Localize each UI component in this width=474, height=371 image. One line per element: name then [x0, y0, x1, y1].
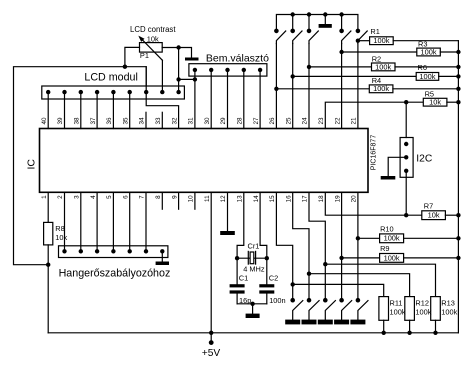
svg-text:21: 21 [351, 117, 358, 125]
svg-text:10: 10 [188, 195, 195, 203]
node pin20/R10 junction [356, 236, 360, 240]
wire IC pin 23 up to R5 row [325, 102, 423, 128]
ground stub on top bus [324, 15, 326, 25]
wire IC pin 3 to volume connector [80, 192, 82, 251]
pin number labels IC bottom row 1..20 [41, 195, 358, 203]
wire I2C bottom pin to R7 row [405, 171, 407, 215]
svg-text:31: 31 [188, 117, 195, 125]
potentiometer P1 body [140, 43, 163, 53]
svg-text:10k: 10k [428, 211, 440, 220]
node crystal left [235, 256, 239, 260]
svg-text:18: 18 [318, 195, 325, 203]
wire P1 junction down to LCD pin 9 [178, 48, 180, 93]
svg-text:R9: R9 [380, 244, 389, 253]
node oscillator ground [250, 302, 254, 306]
node junction wiper-net / pin31 wire [176, 77, 180, 81]
wire row to R12 top [309, 274, 410, 297]
wire P1 right terminal to ground [162, 48, 191, 58]
svg-text:10k: 10k [55, 233, 67, 242]
LCD connector box [42, 86, 185, 99]
svg-text:100k: 100k [373, 36, 389, 45]
resistor R7 [422, 211, 459, 220]
switch S8 (bottom, pin 17 net) [323, 298, 335, 320]
switch S3 (IC pin 24) [307, 29, 319, 44]
LCD connector pin dots [46, 90, 181, 94]
resistor R13 [431, 297, 441, 333]
ground bar on top bus [319, 24, 332, 28]
wire Bem pin2 to IC pin 30 [210, 70, 212, 129]
switch S7 (bottom, pin 16 net) [307, 298, 319, 320]
wire P1 wiper to LCD pin 8 [161, 60, 163, 92]
svg-text:4 MHz: 4 MHz [243, 265, 265, 274]
wire C1 bottom [236, 294, 238, 304]
svg-text:100k: 100k [390, 307, 406, 316]
wire IC pin 12 to ground [227, 192, 229, 231]
wire IC pin 13 to crystal [237, 192, 244, 258]
svg-text:29: 29 [220, 117, 227, 125]
svg-text:9: 9 [171, 195, 178, 199]
node taps on switch columns [274, 50, 344, 91]
Hangerőszabályozóhoz connector box [59, 246, 168, 258]
ground bar pin 12 [220, 231, 235, 235]
svg-text:R11: R11 [390, 298, 403, 307]
svg-text:33: 33 [155, 117, 162, 125]
svg-text:25: 25 [285, 117, 292, 125]
svg-text:100n: 100n [269, 296, 285, 305]
wire LCD pin6 to IC pin 35 [129, 92, 131, 128]
svg-text:35: 35 [122, 117, 129, 125]
potentiometer P1 wiper arrow [138, 36, 162, 61]
svg-text:38: 38 [74, 117, 81, 125]
svg-text:P1: P1 [140, 51, 149, 60]
wire S4 to IC pin 22 [341, 44, 343, 129]
svg-text:1: 1 [41, 195, 48, 199]
node row junction to R11 [291, 282, 295, 286]
ground bar S6 [285, 320, 300, 325]
wire IC pin 17 jog to switch column 3 [309, 192, 325, 300]
svg-text:C2: C2 [269, 273, 278, 282]
svg-text:6: 6 [122, 195, 129, 199]
ground bar I2C [381, 176, 396, 180]
wire IC pin 2 to volume connector [64, 192, 66, 251]
svg-text:LCD modul: LCD modul [84, 71, 137, 83]
node row junction to R13 [323, 262, 327, 266]
wire to oscillator ground bar [252, 304, 254, 314]
svg-text:100k: 100k [420, 47, 436, 56]
stub IC pin 10 [194, 192, 196, 209]
wire LCD pin2 to IC pin 39 [64, 92, 66, 128]
svg-text:Hangerőszabályozóhoz: Hangerőszabályozóhoz [59, 268, 171, 280]
Bem connector pin dots [193, 68, 263, 72]
wire Bem pin4 to IC pin 28 [243, 70, 245, 129]
wire right vertical bus [457, 41, 459, 333]
wire IC pin 20 down to switch [357, 192, 359, 300]
resistor R9 [342, 254, 459, 263]
node bottom bus junctions [209, 331, 438, 335]
svg-text:16: 16 [285, 195, 292, 203]
svg-text:100k: 100k [384, 234, 400, 243]
svg-text:R8: R8 [55, 224, 64, 233]
wire S3 to IC pin 24 [308, 44, 310, 129]
wire Bem pin1 to IC pin 31 [194, 70, 196, 129]
wire IC pin 5 to volume connector [112, 192, 114, 251]
svg-text:36: 36 [106, 117, 113, 125]
wire IC pin 7 to volume connector [145, 192, 147, 251]
svg-text:100k: 100k [375, 62, 391, 71]
svg-text:C1: C1 [239, 274, 248, 283]
svg-text:100k: 100k [419, 72, 435, 81]
svg-text:5: 5 [106, 195, 113, 199]
ground bar volume connector [156, 262, 169, 266]
switch S4 (IC pin 22) [339, 29, 351, 44]
svg-text:PIC16F877: PIC16F877 [371, 135, 378, 171]
capacitor C1 [230, 284, 245, 293]
ground bar S8 [318, 320, 333, 325]
wire LCD pin7 jog to IC pin 32 [146, 67, 178, 129]
wire I2C middle pin to ground [388, 157, 406, 176]
ground bar S10 [350, 320, 365, 325]
svg-text:8: 8 [155, 195, 162, 199]
wire S5 to IC pin 21 [357, 44, 359, 129]
wire IC pin 11 to +5V bus [210, 192, 212, 332]
LCD module outline box [14, 67, 147, 265]
volume connector pin dots [62, 249, 164, 253]
wire IC pin 16 jog to switch column 2 [293, 192, 309, 300]
svg-text:IC: IC [26, 159, 38, 170]
node right bus junctions [456, 50, 460, 260]
node junction on pin 31 column [193, 77, 197, 81]
svg-text:100k: 100k [441, 307, 457, 316]
svg-text:7: 7 [139, 195, 146, 199]
IC U1 PIC16F877 body [40, 129, 369, 193]
switch S1 (IC pin 26) [274, 29, 286, 44]
svg-text:26: 26 [269, 117, 276, 125]
wire IC pin 18 to R7 row [325, 192, 422, 215]
node pin19/R9 junction [339, 256, 343, 260]
wire bus drop S2 [292, 15, 294, 31]
wire S2 to IC pin 25 [292, 44, 294, 129]
switch S2 (IC pin 25) [290, 29, 302, 44]
wire LCD pin3 to IC pin 38 [80, 92, 82, 128]
svg-text:32: 32 [171, 117, 178, 125]
node P1 right junction [176, 45, 180, 49]
stub IC pin 8 [161, 192, 163, 209]
resistor R1 [358, 37, 459, 45]
svg-text:R13: R13 [441, 298, 455, 307]
svg-text:LCD contrast: LCD contrast [130, 25, 176, 34]
resistor R12 [405, 297, 415, 333]
svg-text:R10: R10 [380, 225, 394, 234]
resistor R4 [276, 85, 458, 93]
node R7 row / I2C junction [404, 213, 408, 217]
svg-text:28: 28 [237, 117, 244, 125]
svg-text:R7: R7 [424, 202, 433, 211]
node bus junctions [291, 12, 344, 16]
svg-text:34: 34 [139, 117, 146, 125]
node R8 / left loop junction [46, 263, 50, 267]
wire IC pin 14 to crystal [260, 192, 267, 258]
ground bar near Bem.valaszto [185, 58, 199, 61]
svg-text:10k: 10k [429, 98, 441, 107]
svg-text:17: 17 [302, 195, 309, 203]
switch S9 (bottom, pin 19 net) [339, 298, 351, 320]
svg-text:20: 20 [351, 195, 358, 203]
wire junction to IC pin 31 column [179, 78, 195, 80]
ground bar S9 [334, 320, 349, 325]
wire IC pin 15 jog to switch column 1 [276, 192, 292, 300]
node crystal right [265, 256, 269, 260]
node P1 left junction [123, 65, 127, 69]
svg-text:16p: 16p [239, 296, 251, 305]
node R5 row to I2C drop [404, 100, 408, 104]
wire row to R11 top [293, 284, 384, 296]
node row junction to R12 [307, 272, 311, 276]
wire C2 bottom [266, 294, 268, 304]
svg-text:3: 3 [74, 195, 81, 199]
capacitor C2 [259, 284, 274, 293]
wire crystal right branch down to C2 [266, 258, 268, 284]
wire P1 left terminal [125, 47, 140, 66]
resistor R8 [44, 222, 53, 332]
wire bus drop S4 [341, 15, 343, 31]
svg-text:I2C: I2C [416, 154, 433, 165]
stub IC pin 33 [161, 112, 163, 128]
svg-text:100k: 100k [415, 307, 431, 316]
svg-text:Cr1: Cr1 [248, 242, 260, 251]
wire top ground bus [276, 15, 358, 31]
svg-text:+5V: +5V [202, 348, 221, 359]
wire IC pin 4 to volume connector [96, 192, 98, 251]
wire S1 to IC pin 26 [275, 44, 277, 129]
resistor R11 [379, 297, 389, 333]
ground bar oscillator [246, 314, 260, 318]
wire Bem pin3 to IC pin 29 [227, 70, 229, 129]
svg-text:23: 23 [318, 117, 325, 125]
svg-text:2: 2 [57, 195, 64, 199]
wire Bem pin5 to IC pin 27 [259, 70, 261, 129]
wire bus drop S3 [308, 15, 310, 31]
wire IC pin 1 to R8 [47, 192, 49, 222]
svg-text:13: 13 [237, 195, 244, 203]
crystal Cr1 [248, 251, 255, 264]
+5V terminal [209, 333, 214, 345]
svg-text:22: 22 [334, 117, 341, 125]
wire row to R13 top [325, 264, 435, 296]
svg-text:37: 37 [90, 117, 97, 125]
svg-text:R12: R12 [415, 298, 429, 307]
svg-text:19: 19 [334, 195, 341, 203]
wire crystal left branch down to C1 [236, 258, 238, 284]
svg-text:14: 14 [253, 195, 260, 203]
svg-text:4: 4 [90, 195, 97, 199]
wire I2C top pin to R5 row [405, 102, 407, 137]
switch S6 (bottom, pin 15 net) [290, 298, 302, 320]
resistor R5 [423, 98, 458, 106]
wire +5V bottom bus [48, 332, 458, 334]
pin number labels IC top row 40..21 [41, 117, 358, 125]
svg-text:100k: 100k [373, 84, 389, 93]
stub IC pin 34 [145, 112, 147, 128]
Bem.választó connector box [189, 64, 267, 76]
wire crystal row [237, 257, 267, 259]
wire LCD pin5 to IC pin 36 [112, 92, 114, 128]
svg-text:100k: 100k [384, 253, 400, 262]
resistor R6 [293, 73, 459, 81]
svg-text:27: 27 [253, 117, 260, 125]
stub IC pin 9 [178, 192, 180, 209]
I2C connector box [400, 138, 413, 178]
svg-text:24: 24 [302, 117, 309, 125]
svg-text:12: 12 [220, 195, 227, 203]
node switch S5 / R1 junction [356, 39, 360, 43]
svg-text:Bem.választó: Bem.választó [206, 53, 269, 65]
wire LCD pin4 to IC pin 37 [96, 92, 98, 128]
svg-text:11: 11 [204, 195, 211, 202]
I2C connector pin dots [404, 142, 408, 173]
switch S5 (IC pin 21) [356, 29, 368, 44]
svg-text:30: 30 [204, 117, 211, 125]
wire IC pin 19 down to switch [341, 192, 343, 300]
svg-text:R6: R6 [418, 63, 427, 72]
switch S10 (bottom, pin 20 net) [356, 298, 368, 320]
svg-text:40: 40 [41, 117, 48, 125]
resistor R10 [358, 234, 459, 243]
svg-text:R1: R1 [370, 27, 379, 36]
resistor R2 [309, 63, 458, 71]
ground bar S7 [302, 320, 317, 325]
wire oscillator ground join [237, 303, 267, 305]
resistor R3 [342, 48, 459, 56]
svg-text:39: 39 [57, 117, 64, 125]
svg-text:15: 15 [269, 195, 276, 203]
wire IC pin 6 to volume connector [129, 192, 131, 251]
svg-text:10k: 10k [147, 34, 159, 43]
wire LCD pin1 to IC pin 40 [47, 92, 49, 128]
wire volume connector ground pin [161, 251, 163, 261]
